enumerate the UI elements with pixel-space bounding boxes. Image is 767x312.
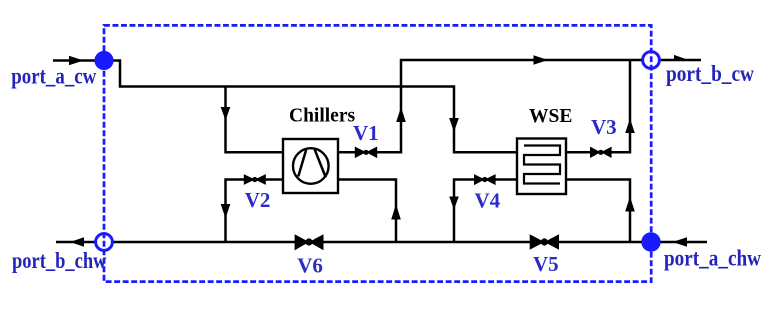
arrow down on V2 drop — [221, 204, 231, 219]
wire external out of port_b_cw — [659, 59, 701, 62]
valve V4 — [474, 174, 496, 185]
port_b_chw connector — [96, 234, 113, 251]
port_b_cw connector — [643, 52, 660, 69]
chillers box — [283, 139, 338, 193]
wire WSE lower outlet down to chw line — [566, 180, 630, 243]
wire chillers evaporator outlet down to chw line — [338, 180, 396, 243]
wire V2 branch to chillers evaporator inlet — [226, 180, 284, 243]
arrow down on chiller condenser drop — [221, 107, 231, 121]
svg-text:port_a_chw: port_a_chw — [664, 246, 761, 271]
port_a_chw connector — [641, 232, 660, 251]
WSE box — [517, 139, 566, 195]
svg-text:Chillers: Chillers — [289, 106, 355, 127]
valve V3 — [590, 147, 612, 158]
arrow up at x=631 upper — [625, 119, 635, 134]
wire WSE upper outlet via V3 up to top header — [566, 60, 630, 152]
port_a_cw connector — [94, 51, 113, 70]
valve V5 — [530, 234, 559, 249]
valve V6 — [295, 234, 324, 250]
svg-text:WSE: WSE — [529, 106, 572, 127]
wire chillers condenser outlet via V1 up to top header — [338, 60, 642, 152]
arrow out of port_b_chw — [70, 237, 84, 246]
wire port_a_cw to condenser header — [104, 61, 517, 153]
svg-text:V2: V2 — [245, 188, 271, 212]
svg-text:V1: V1 — [353, 121, 379, 145]
wire external out of port_b_chw — [56, 241, 95, 244]
svg-text:V4: V4 — [475, 189, 501, 213]
wire V4 branch down to chw line — [454, 180, 517, 243]
arrow up at x=401 — [396, 107, 406, 122]
wire branch to chillers condenser inlet — [226, 87, 284, 153]
valve V1 — [355, 147, 377, 159]
wire external into port_a_chw — [659, 241, 707, 244]
chillers compressor circle — [293, 148, 329, 184]
component boundary dashed box — [104, 25, 651, 281]
WSE coil — [524, 146, 560, 184]
svg-text:V3: V3 — [591, 115, 617, 139]
arrow into port_a_cw — [69, 56, 84, 66]
arrow down on WSE condenser drop — [449, 118, 459, 132]
chillers compressor lines — [298, 149, 326, 178]
arrow into port_a_chw — [673, 237, 688, 246]
bottom chw wire — [114, 241, 652, 244]
wire external into port_a_cw — [53, 59, 96, 62]
svg-text:port_a_cw: port_a_cw — [11, 64, 96, 89]
svg-text:V6: V6 — [297, 254, 323, 278]
arrow down on V4 drop — [449, 197, 459, 210]
svg-text:port_b_chw: port_b_chw — [12, 248, 107, 273]
valve V2 — [244, 174, 266, 185]
svg-text:port_b_cw: port_b_cw — [666, 61, 754, 86]
svg-text:V5: V5 — [533, 252, 559, 276]
arrow up at x=631 lower — [625, 197, 635, 212]
arrow up at x=396 — [391, 204, 401, 220]
arrow right on top header — [534, 55, 549, 65]
half arrow out of port_b_cw — [674, 55, 689, 60]
